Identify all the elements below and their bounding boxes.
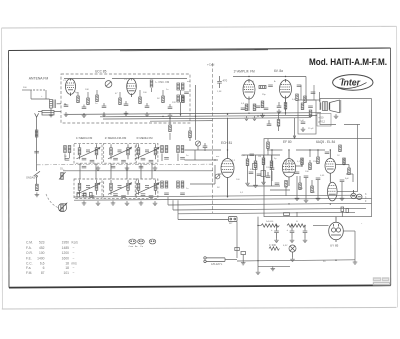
svg-text:+: + [361, 223, 363, 225]
resistor R5 [96, 95, 99, 102]
svg-text:C.M.: C.M. [26, 241, 33, 245]
feeder wires [170, 92, 372, 192]
IF transformer box B5 [104, 179, 136, 198]
tiny labels detector [300, 120, 315, 130]
whip antenna AM [35, 113, 39, 163]
filter cap C28 [271, 226, 279, 243]
svg-text:O.R.: O.R. [26, 251, 33, 255]
capacitor C7 [145, 106, 150, 108]
svg-text:452: 452 [39, 246, 45, 250]
wire to dropper [258, 225, 261, 227]
ground G15 [295, 196, 300, 200]
svg-text:~: ~ [73, 256, 75, 260]
fuse on box bottom [284, 212, 298, 217]
IFT1 innards [77, 144, 101, 162]
svg-text:EF 80: EF 80 [283, 140, 292, 144]
capacitor C11 [241, 108, 246, 110]
IF transformer box B6 [136, 179, 158, 198]
svg-text:2ª MEDIA FM-OM: 2ª MEDIA FM-OM [105, 136, 127, 140]
svg-text:C1: C1 [63, 80, 67, 82]
wire power vertical [257, 217, 259, 270]
wire grid bank top [242, 154, 280, 156]
capacitor C15 [311, 92, 316, 94]
resistor R20 [270, 155, 273, 186]
resistor R2 [36, 184, 39, 191]
svg-text:1n: 1n [95, 103, 98, 105]
capacitor C31 [267, 120, 272, 126]
paper left edge [1, 28, 4, 309]
electrolytic can C26 [351, 190, 356, 199]
svg-text:2x1000: 2x1000 [266, 221, 274, 223]
tube V5 converter [221, 118, 234, 197]
B+ bus 1 [65, 113, 321, 115]
capacitor C35 [308, 106, 313, 108]
resistor R18 [254, 155, 257, 183]
svg-text:6: 6 [43, 266, 45, 270]
capacitor C13 [264, 108, 269, 110]
tube V4 [280, 79, 292, 99]
svg-text:osc: osc [187, 81, 191, 83]
tube V3 [243, 79, 255, 100]
wire antenna down [36, 163, 38, 171]
svg-text:A: A [274, 80, 276, 83]
svg-text:6V. 8a: 6V. 8a [274, 69, 283, 73]
capacitor C32 [325, 152, 330, 154]
wire det left [300, 85, 302, 100]
resistor R24 [343, 158, 346, 165]
wire arrow feed [293, 118, 296, 139]
capacitor C34 [203, 143, 208, 151]
B+ bus 2 [100, 115, 317, 116]
svg-text:100: 100 [143, 92, 147, 94]
padder coil L10 [61, 205, 64, 212]
capacitor C21 [304, 176, 309, 178]
ground G4 [82, 113, 87, 117]
svg-text:1K: 1K [337, 155, 340, 157]
tube V2 [127, 79, 137, 98]
svg-text:42: 42 [64, 147, 67, 149]
capacitor C24 [270, 168, 275, 170]
wire dropper to rectifier [313, 225, 329, 227]
bottom-right stamp [373, 277, 390, 285]
padder coil L9 [59, 172, 66, 180]
small parts box corner [341, 207, 349, 217]
capacitor C2 [34, 151, 39, 153]
ground G6 [124, 111, 129, 115]
svg-text:1400: 1400 [37, 256, 45, 260]
IFT4 innards [77, 180, 101, 198]
svg-text:18: 18 [65, 262, 69, 266]
svg-text:5p: 5p [274, 158, 277, 160]
rectifier tube V9 [329, 217, 344, 242]
capacitor C3 [64, 105, 69, 107]
svg-text:0,02: 0,02 [311, 192, 316, 194]
frame bottom [9, 285, 391, 287]
resistor R16 [169, 125, 172, 132]
resistor R26 [299, 183, 302, 190]
capacitor C20 [295, 172, 300, 174]
resistor R17 [246, 155, 249, 181]
pinout socket C [149, 239, 156, 244]
svg-text:47K: 47K [250, 169, 254, 171]
cable curve dashed [46, 194, 58, 208]
svg-text:F.A.: F.A. [26, 246, 32, 250]
trimmer CT2 [195, 141, 200, 150]
ground G18 [340, 196, 345, 200]
tube V7 [325, 150, 336, 182]
resistor R3 [77, 96, 80, 103]
frame left [8, 51, 11, 288]
svg-text:22K: 22K [172, 102, 176, 104]
bus junction dots [227, 114, 228, 115]
frame right [390, 48, 392, 285]
ballast parts [235, 248, 246, 261]
svg-text:6AQ5 - EL 84: 6AQ5 - EL 84 [316, 140, 335, 144]
ground G8 [168, 113, 173, 117]
inter-row wires [63, 163, 213, 179]
resistor R37 under V6 [285, 181, 288, 197]
paper bottom edge [2, 307, 397, 309]
electrolytic can C27 [357, 194, 362, 199]
loading coil L2 [35, 130, 38, 137]
ground G12 [245, 181, 250, 185]
svg-text:+ 50: + 50 [318, 116, 324, 120]
svg-text:1ª AMPLIF. FM: 1ª AMPLIF. FM [234, 70, 256, 74]
B+ bus 3 [103, 118, 311, 119]
resistor R12 [253, 104, 256, 111]
svg-text:1,5K: 1,5K [217, 91, 222, 93]
svg-text:10K: 10K [305, 171, 309, 173]
tiny parts on bus [77, 193, 92, 198]
svg-text:Mod. HAITI-A.M-F.M.: Mod. HAITI-A.M-F.M. [309, 57, 387, 67]
resistor R21 [301, 158, 304, 165]
svg-text:1485: 1485 [62, 246, 70, 250]
ground G21 [353, 260, 358, 264]
svg-text:1950: 1950 [62, 241, 70, 245]
svg-text:7K: 7K [64, 156, 67, 158]
svg-text:F.a.: F.a. [26, 266, 31, 270]
svg-text:F: F [365, 200, 367, 203]
resistor R8 [162, 96, 165, 103]
svg-text:µF/12: µF/12 [318, 120, 325, 124]
ground G3 [64, 112, 69, 116]
audio section box [264, 139, 372, 217]
audio box wires [267, 150, 353, 198]
wire rectifier right [343, 231, 355, 260]
svg-text:2,2: 2,2 [232, 160, 236, 162]
svg-text:G: G [252, 81, 254, 83]
resistor R38 [267, 139, 270, 155]
coil L5 [161, 146, 169, 162]
resistor R22 [309, 163, 312, 170]
ground G11 [260, 113, 265, 117]
ground G20 [271, 266, 276, 270]
junction dot [248, 76, 249, 77]
svg-text:~: ~ [73, 246, 75, 250]
mains switch S2 [229, 217, 238, 222]
svg-text:1n: 1n [186, 155, 189, 157]
svg-text:0,05: 0,05 [320, 175, 325, 177]
dial lamp LP1 [289, 245, 296, 257]
ground under R2 [35, 192, 40, 196]
tube V1 [66, 79, 76, 97]
volume pot P1 [58, 203, 66, 212]
junction dots converter [227, 149, 228, 150]
ground G23 [256, 270, 261, 274]
resistor R19 [262, 155, 265, 180]
wires IF to converter [185, 150, 222, 184]
wire switch down [236, 222, 238, 259]
resistor R6 [119, 98, 122, 105]
tube V8 [328, 182, 338, 201]
svg-text:1ª 400: 1ª 400 [269, 243, 277, 247]
paper top edge [2, 26, 397, 28]
tube V6 [282, 150, 295, 186]
capacitor C36 [301, 122, 306, 124]
FM tuner dashed box [61, 74, 190, 123]
resistor R31 [277, 113, 280, 131]
capacitor C12 [256, 106, 261, 108]
svg-text:25p: 25p [262, 94, 266, 96]
ground G9 [244, 116, 249, 120]
resistor R33 [189, 127, 192, 141]
svg-text:~: ~ [73, 266, 75, 270]
tiny value labels [232, 155, 349, 194]
resistor R23 [317, 157, 320, 164]
svg-text:O.L.: O.L. [60, 168, 65, 171]
inter-row grounds [96, 166, 101, 170]
IFT5 innards [108, 180, 132, 198]
frame top [9, 48, 391, 51]
svg-text:1n: 1n [186, 188, 189, 190]
capacitor C10 [268, 85, 273, 87]
shield partition dashed [212, 63, 214, 213]
coupling coil L4 [177, 83, 189, 117]
svg-text:25 µF: 25 µF [308, 128, 314, 130]
heater bus 1 [168, 197, 372, 205]
svg-text:0,1: 0,1 [240, 192, 244, 194]
svg-text:1M: 1M [258, 156, 261, 158]
resistor R4 [87, 98, 90, 105]
svg-text:300: 300 [23, 87, 27, 89]
detector box [298, 100, 316, 134]
resistor R34 [301, 103, 304, 110]
svg-text:100: 100 [39, 251, 45, 255]
heater bus 2 [173, 200, 366, 210]
svg-text:1n: 1n [166, 89, 169, 91]
trimmer CT1 [105, 81, 112, 88]
svg-text:Ω: Ω [296, 221, 298, 223]
output transformer T2 [321, 102, 329, 111]
pinout socket A [129, 239, 136, 244]
coil L7 [161, 181, 169, 195]
IFT3 innards [136, 144, 160, 162]
capacitor C9 [217, 76, 222, 88]
tuning link dash-dot [37, 163, 213, 166]
capacitor C5 [102, 106, 107, 108]
speaker cone [330, 100, 341, 113]
junction dots audio [271, 149, 272, 150]
ground G17 [316, 196, 321, 200]
svg-text:UCC 85: UCC 85 [95, 70, 107, 74]
capacitor C14 [297, 85, 302, 87]
svg-text:18: 18 [65, 266, 69, 270]
wire grid bank bottom [248, 185, 281, 187]
FM box internal wires [64, 79, 187, 108]
svg-text:m/s: m/s [72, 262, 78, 266]
svg-text:ECH 81: ECH 81 [221, 141, 232, 145]
ground G25 [334, 114, 339, 118]
IF transformer box B3 [136, 143, 158, 163]
IF transformer box B1 [74, 143, 102, 163]
band switch S1 [34, 171, 40, 184]
AVC bus 2 [74, 198, 372, 200]
resistor R27 [311, 186, 314, 193]
resistor R35 [309, 110, 312, 117]
trimmer CT3 [215, 174, 220, 179]
svg-text:30: 30 [323, 261, 326, 263]
resistor R36 [284, 99, 287, 115]
wire det right [313, 85, 315, 100]
resistor R10 [259, 86, 266, 89]
pinout socket B [138, 239, 145, 244]
wire mains vertical [225, 258, 237, 262]
svg-text:470: 470 [223, 79, 228, 83]
svg-text:0,1: 0,1 [297, 161, 301, 163]
svg-text:1600: 1600 [62, 256, 70, 260]
paper right edge [396, 27, 399, 308]
speaker box [320, 99, 372, 125]
B+ bus 4 [150, 120, 213, 123]
coil L6 [177, 146, 185, 162]
capacitor C37 [277, 102, 282, 113]
IF transformer box B4 [74, 179, 102, 198]
grounds under row2 [82, 201, 87, 205]
inter-row caps [82, 166, 87, 168]
IFT2 innards [108, 144, 132, 162]
IF transformer box B2 [104, 143, 136, 163]
svg-text:~: ~ [73, 271, 75, 275]
svg-text:ONDAS: ONDAS [26, 176, 35, 180]
mains plug [204, 257, 225, 263]
ground bus bottom [237, 260, 355, 261]
ground G10 [252, 116, 257, 120]
ground G14 [261, 180, 266, 184]
resistor R29 dropper [287, 224, 305, 227]
Inter logo [333, 75, 373, 91]
svg-text:1200: 1200 [62, 251, 70, 255]
heater bus 3 [178, 200, 355, 214]
svg-text:+Cad: +Cad [207, 63, 215, 67]
svg-text:125-220 V.: 125-220 V. [211, 263, 223, 266]
assorted tiny labels [23, 79, 363, 263]
coupling parts [250, 154, 266, 177]
svg-text:0,5: 0,5 [241, 103, 245, 105]
ferrite rod antenna [38, 111, 61, 116]
resistor R30 [269, 247, 279, 251]
svg-text:≈: ≈ [41, 95, 43, 98]
capacitor C33 [266, 172, 271, 178]
resistor R25 [348, 168, 351, 175]
svg-text:UY 85: UY 85 [330, 244, 339, 248]
top rail wire [233, 77, 320, 101]
svg-text:L. OSC. FM: L. OSC. FM [156, 80, 170, 84]
AVC bus left [74, 195, 355, 197]
svg-text:3ª MEDIA FM: 3ª MEDIA FM [136, 136, 153, 140]
filter cap C29 [287, 226, 295, 243]
svg-text:523: 523 [39, 241, 45, 245]
svg-text:1ª MEDIA FM: 1ª MEDIA FM [76, 136, 93, 140]
ground G19 [290, 257, 295, 261]
label cans [365, 193, 367, 203]
svg-text:Cma Av Fo: Cma Av Fo [129, 245, 144, 248]
svg-text:F.E.: F.E. [26, 256, 32, 260]
cap label box [317, 114, 331, 127]
ground G22 [241, 261, 246, 265]
wire bottom stub [258, 265, 290, 267]
capacitor C23 [340, 180, 345, 182]
ground G13 [253, 183, 258, 187]
coil L3 [150, 80, 153, 87]
capacitor C18 [249, 172, 254, 174]
resistor R9 [182, 96, 185, 103]
svg-text:5K: 5K [157, 98, 160, 100]
svg-text:100: 100 [236, 179, 240, 181]
capacitor C22 [316, 178, 321, 180]
ground G7 [145, 112, 150, 116]
capacitor C8 [168, 107, 173, 109]
svg-text:CV: CV [124, 79, 128, 81]
coil L8 [177, 181, 185, 195]
svg-text:500K: 500K [298, 188, 304, 190]
svg-text:5 µF: 5 µF [300, 120, 305, 122]
svg-text:C.C.: C.C. [26, 262, 33, 266]
svg-text:ANTENA FM: ANTENA FM [29, 77, 49, 81]
IFT6 innards [136, 180, 160, 198]
ground G5 [102, 112, 107, 116]
svg-text:INT: INT [229, 223, 233, 225]
capacitor C25 [275, 183, 280, 185]
svg-text:87: 87 [41, 271, 45, 275]
resistor R11 [245, 104, 248, 111]
capacitor C19 [257, 174, 262, 176]
ground G24 [301, 127, 306, 131]
svg-text:F.M.: F.M. [26, 271, 32, 275]
wire osc down [195, 85, 197, 140]
svg-text:osc: osc [216, 156, 220, 158]
svg-text:10K: 10K [85, 89, 89, 91]
capacitor C4 [82, 107, 87, 109]
wire bus to switch [178, 214, 229, 220]
svg-text:Kc/s: Kc/s [72, 241, 79, 245]
resistor R14 [296, 94, 299, 101]
input coil L11 [64, 146, 71, 161]
svg-text:101: 101 [63, 271, 69, 275]
frame top double segment [120, 50, 268, 51]
svg-text:8µF: 8µF [345, 178, 349, 180]
resistor R15 [304, 96, 307, 103]
svg-text:47: 47 [115, 93, 118, 95]
resistor R13 [261, 101, 264, 108]
capacitor C6 [124, 104, 129, 106]
svg-text:+: + [287, 229, 289, 232]
FM box bus dots [83, 114, 84, 115]
ground under balun [49, 113, 54, 117]
resistor R28 dropper [261, 224, 279, 227]
svg-text:~: ~ [73, 251, 75, 255]
resistor R7 [139, 97, 142, 104]
dipole antenna wire [22, 90, 50, 99]
